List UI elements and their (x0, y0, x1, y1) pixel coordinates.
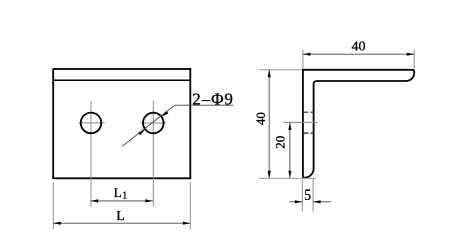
hole 1 center line horizontal (78, 122, 104, 124)
20 arrow bottom (288, 171, 291, 179)
L1 arrow left (91, 199, 99, 202)
left 40 arrow top (268, 70, 271, 78)
left 40 arrow bottom (268, 171, 271, 179)
diameter arrow upper (162, 111, 169, 117)
hole 2 (143, 113, 164, 134)
L arrow left (53, 222, 61, 225)
top 40 arrow left (303, 53, 311, 56)
svg-text:40: 40 (352, 40, 366, 55)
top 40 extension line right (413, 50, 415, 71)
hole hidden line upper (304, 111, 314, 113)
L1 dimension line (91, 200, 153, 202)
hole axis center line (283, 121, 318, 123)
diameter leader line (122, 105, 175, 146)
20 dimension line (289, 122, 291, 178)
L arrow right (183, 222, 191, 225)
hole 2 center line horizontal (141, 122, 167, 124)
svg-text:L: L (116, 209, 125, 224)
20 arrow top (288, 122, 291, 129)
top 40 extension line left (302, 49, 304, 68)
5 dimension line right segment (313, 201, 331, 203)
hole 2 center line vertical (152, 101, 154, 207)
5 dimension line left segment (290, 201, 303, 203)
5 arrow left (295, 200, 303, 203)
top 40 arrow right (407, 53, 415, 56)
5 extension line left (301, 179, 303, 212)
left 40 extension line top (259, 69, 302, 71)
left 40 dimension line (268, 70, 270, 179)
L extension line right (189, 182, 191, 229)
svg-text:2–Φ9: 2–Φ9 (192, 89, 234, 108)
L1 arrow right (145, 199, 153, 202)
bend line (53, 79, 190, 81)
svg-text:40: 40 (253, 112, 268, 125)
svg-text:20: 20 (272, 136, 287, 149)
svg-text:5: 5 (304, 187, 311, 204)
diameter leader shelf (175, 104, 234, 106)
hole 1 (81, 113, 102, 134)
side view angle profile (303, 70, 414, 178)
hole 1 center line vertical (90, 101, 92, 207)
front view plate outline (53, 69, 190, 178)
bottom extension line (259, 177, 316, 179)
5 arrow right (313, 200, 321, 203)
L extension line left (52, 182, 54, 229)
hole hidden line lower (304, 132, 314, 134)
diameter arrow lower (138, 129, 145, 135)
5 extension line right (312, 179, 314, 212)
top 40 dimension line (303, 53, 414, 55)
L dimension line (53, 222, 190, 224)
